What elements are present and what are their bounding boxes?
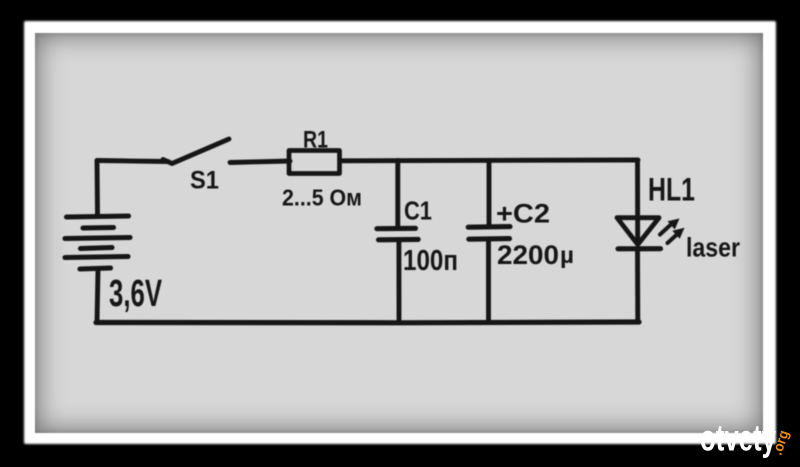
svg-text:otvety: otvety bbox=[700, 418, 776, 459]
